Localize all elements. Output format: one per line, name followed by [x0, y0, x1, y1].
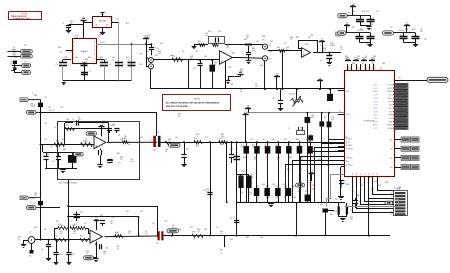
- svg-text:D27: D27: [352, 27, 355, 29]
- svg-text:D10: D10: [126, 57, 129, 59]
- svg-text:6: 6: [94, 50, 95, 52]
- svg-text:R30: R30: [100, 57, 103, 59]
- svg-text:R10: R10: [56, 141, 59, 143]
- svg-text:TPA301: TPA301: [80, 50, 88, 53]
- svg-text:Y1: Y1: [288, 128, 290, 130]
- svg-text:R6: R6: [300, 169, 302, 171]
- svg-text:R40: R40: [168, 139, 171, 141]
- svg-text:C27: C27: [348, 68, 351, 70]
- svg-text:R43: R43: [240, 69, 243, 71]
- svg-text:C51: C51: [250, 139, 253, 141]
- svg-text:R44: R44: [373, 56, 376, 58]
- svg-text:D35: D35: [208, 31, 211, 33]
- svg-text:100: 100: [345, 58, 348, 60]
- svg-text:L51: L51: [32, 106, 35, 108]
- svg-text:R10: R10: [323, 48, 326, 50]
- svg-text:11: 11: [360, 174, 362, 176]
- svg-text:C11: C11: [118, 163, 121, 165]
- svg-text:D58: D58: [230, 239, 233, 241]
- svg-text:L47: L47: [390, 27, 393, 29]
- svg-text:3: 3: [73, 50, 74, 52]
- svg-text:15: 15: [376, 174, 378, 176]
- svg-text:0.1u: 0.1u: [340, 49, 343, 51]
- svg-text:C19: C19: [230, 218, 233, 220]
- svg-text:R40: R40: [296, 37, 299, 39]
- svg-text:C13: C13: [331, 117, 334, 119]
- svg-text:13: 13: [368, 174, 370, 176]
- svg-text:S3: S3: [335, 150, 337, 152]
- svg-text:D35: D35: [342, 35, 345, 37]
- svg-text:R38: R38: [262, 36, 265, 38]
- svg-text:DOUT: DOUT: [346, 114, 351, 116]
- svg-text:R31: R31: [277, 157, 280, 159]
- svg-text:C39: C39: [262, 139, 265, 141]
- svg-text:R14: R14: [293, 186, 296, 188]
- svg-text:C43: C43: [287, 145, 290, 147]
- svg-text:P5: P5: [391, 208, 393, 210]
- svg-text:10K: 10K: [178, 116, 181, 118]
- svg-text:-: -: [91, 231, 92, 235]
- svg-text:104: 104: [13, 55, 16, 57]
- svg-text:R31: R31: [80, 236, 83, 238]
- svg-text:220: 220: [196, 146, 199, 148]
- svg-text:C22: C22: [350, 210, 353, 212]
- svg-text:R63: R63: [330, 214, 333, 216]
- svg-text:R8: R8: [293, 103, 295, 105]
- svg-text:VCM: VCM: [244, 112, 248, 114]
- svg-text:R48: R48: [346, 184, 349, 186]
- svg-text:BCK0: BCK0: [374, 105, 378, 107]
- svg-text:220: 220: [110, 223, 113, 225]
- svg-text:R16: R16: [241, 145, 244, 147]
- svg-text:P6: P6: [391, 211, 393, 213]
- svg-text:R57: R57: [252, 145, 255, 147]
- svg-text:220: 220: [287, 147, 290, 149]
- svg-text:C8: C8: [365, 56, 367, 58]
- svg-text:4.7u: 4.7u: [66, 121, 69, 123]
- svg-text:+: +: [95, 144, 97, 148]
- svg-text:C31: C31: [59, 254, 62, 256]
- svg-text:100: 100: [373, 58, 376, 60]
- svg-text:C2: C2: [85, 139, 87, 141]
- svg-text:VCC1: VCC1: [374, 128, 378, 130]
- svg-text:C30: C30: [284, 186, 287, 188]
- svg-text:C47: C47: [155, 55, 158, 57]
- svg-text:R46: R46: [90, 132, 93, 134]
- svg-text:C15: C15: [153, 149, 156, 151]
- svg-text:R36: R36: [300, 127, 303, 129]
- svg-text:10u: 10u: [75, 37, 78, 39]
- svg-text:7: 7: [94, 46, 95, 48]
- svg-text:C61: C61: [140, 137, 143, 139]
- svg-text:C26: C26: [206, 189, 209, 191]
- svg-text:C2: C2: [266, 157, 268, 159]
- svg-text:104: 104: [240, 179, 243, 181]
- svg-text:220: 220: [420, 31, 423, 33]
- svg-text:R13: R13: [350, 217, 353, 219]
- svg-text:C56: C56: [220, 231, 223, 233]
- svg-text:R31: R31: [371, 189, 374, 191]
- svg-text:C59: C59: [275, 197, 278, 199]
- svg-text:104: 104: [300, 129, 303, 131]
- svg-text:C54: C54: [372, 68, 375, 70]
- svg-text:0.1u: 0.1u: [205, 35, 208, 37]
- svg-text:C36: C36: [105, 248, 108, 250]
- svg-text:L82: L82: [112, 217, 115, 219]
- svg-text:C6: C6: [112, 60, 114, 62]
- svg-text:C25: C25: [275, 186, 278, 188]
- svg-text:100: 100: [60, 233, 63, 235]
- svg-text:C85: C85: [360, 185, 363, 187]
- svg-text:R1: R1: [118, 135, 120, 137]
- svg-text:-: -: [95, 137, 96, 141]
- svg-text:D88: D88: [382, 63, 385, 65]
- svg-text:R33: R33: [63, 149, 66, 151]
- svg-text:L30: L30: [424, 39, 427, 41]
- svg-text:S2: S2: [335, 146, 337, 148]
- svg-text:L14: L14: [297, 191, 300, 193]
- svg-text:DOUT1: DOUT1: [373, 101, 378, 103]
- svg-text:D63: D63: [352, 63, 355, 65]
- svg-text:100: 100: [193, 239, 196, 241]
- svg-text:C37: C37: [246, 35, 249, 37]
- svg-text:4.7u: 4.7u: [72, 227, 75, 229]
- svg-text:D98: D98: [306, 139, 309, 141]
- svg-text:100: 100: [124, 138, 127, 140]
- svg-text:D52: D52: [24, 45, 27, 47]
- svg-text:C50: C50: [86, 251, 89, 253]
- svg-text:R6: R6: [117, 246, 119, 248]
- svg-text:L55: L55: [164, 221, 167, 223]
- svg-text:C10: C10: [75, 35, 78, 37]
- svg-text:C40: C40: [50, 146, 53, 148]
- svg-text:PGM: PGM: [31, 198, 35, 200]
- svg-text:R20: R20: [194, 138, 197, 140]
- svg-text:AS1360: AS1360: [99, 20, 107, 23]
- svg-text:C71: C71: [284, 43, 287, 45]
- svg-text:P2: P2: [391, 199, 393, 201]
- svg-text:VINL: VINL: [389, 118, 393, 120]
- svg-text:220: 220: [85, 141, 88, 143]
- svg-text:C52: C52: [130, 159, 133, 161]
- svg-text:L25: L25: [152, 223, 155, 225]
- svg-text:R87: R87: [232, 53, 235, 55]
- svg-text:R10: R10: [34, 95, 37, 97]
- svg-text:C38: C38: [320, 45, 323, 47]
- svg-text:ITR08 CA-05 CN: ITR08 CA-05 CN: [11, 15, 27, 18]
- svg-text:C55: C55: [357, 56, 360, 58]
- svg-text:TIP: TIP: [269, 45, 271, 47]
- svg-text:L93: L93: [312, 149, 315, 151]
- svg-text:C42: C42: [252, 50, 255, 52]
- svg-text:+: +: [91, 239, 93, 243]
- svg-text:R51: R51: [70, 21, 73, 23]
- svg-text:2: 2: [73, 46, 74, 48]
- svg-text:C36: C36: [398, 187, 401, 189]
- svg-text:C2: C2: [145, 231, 147, 233]
- svg-text:4: 4: [73, 54, 74, 56]
- svg-text:R11: R11: [282, 184, 285, 186]
- svg-text:10u: 10u: [13, 50, 16, 52]
- svg-text:C54 10u: C54 10u: [398, 30, 404, 32]
- svg-text:220: 220: [277, 159, 280, 161]
- svg-text:L80: L80: [170, 55, 173, 57]
- svg-text:C6: C6: [251, 174, 253, 176]
- svg-text:L14: L14: [84, 223, 87, 225]
- svg-text:V+: V+: [95, 218, 97, 220]
- svg-text:C29: C29: [72, 225, 75, 227]
- svg-text:C7: C7: [72, 119, 74, 121]
- svg-text:P22: P22: [390, 158, 393, 160]
- svg-text:VOUTL: VOUTL: [373, 85, 378, 87]
- svg-text:C36: C36: [66, 119, 69, 121]
- svg-text:VINL0: VINL0: [374, 118, 378, 120]
- svg-text:LRCK0: LRCK0: [373, 108, 378, 110]
- svg-text:R6: R6: [284, 197, 286, 199]
- svg-text:AND NOT POPULATED: AND NOT POPULATED: [166, 105, 188, 108]
- svg-text:D88: D88: [58, 47, 61, 49]
- svg-text:L56: L56: [140, 211, 143, 213]
- svg-text:C7: C7: [128, 60, 130, 62]
- svg-text:R60: R60: [158, 51, 161, 53]
- svg-text:C8: C8: [13, 48, 15, 50]
- svg-text:C37: C37: [13, 53, 16, 55]
- svg-text:P20: P20: [390, 140, 393, 142]
- svg-text:104: 104: [284, 188, 287, 190]
- svg-text:D58: D58: [305, 191, 308, 193]
- svg-text:L49: L49: [128, 144, 131, 146]
- svg-text:C16: C16: [110, 17, 113, 19]
- svg-text:4: 4: [94, 58, 95, 60]
- svg-text:C34: C34: [311, 115, 314, 117]
- svg-text:0.1u: 0.1u: [357, 58, 360, 60]
- svg-text:FB1: FB1: [348, 13, 351, 15]
- svg-text:C19: C19: [376, 11, 379, 13]
- svg-text:NOTE: NOTE: [22, 13, 28, 15]
- svg-text:D71: D71: [190, 227, 193, 229]
- svg-text:-: -: [221, 52, 222, 56]
- svg-text:+: +: [221, 60, 223, 64]
- svg-text:C89: C89: [218, 31, 221, 33]
- svg-text:C13: C13: [256, 197, 259, 199]
- svg-text:DOUT: DOUT: [388, 101, 393, 103]
- svg-text:R50: R50: [335, 211, 338, 213]
- svg-text:L15: L15: [414, 35, 417, 37]
- svg-text:R78: R78: [400, 35, 403, 37]
- svg-text:C1: C1: [62, 23, 64, 25]
- svg-text:R13: R13: [362, 11, 365, 13]
- svg-text:D60: D60: [270, 41, 273, 43]
- svg-text:C5: C5: [172, 225, 174, 227]
- svg-text:D20: D20: [318, 159, 321, 161]
- svg-text:L1: L1: [345, 221, 347, 223]
- svg-text:C16: C16: [204, 56, 207, 58]
- svg-text:C95: C95: [60, 107, 63, 109]
- svg-text:VBUS: VBUS: [362, 58, 368, 60]
- svg-text:100: 100: [364, 70, 367, 72]
- svg-text:R41: R41: [198, 41, 201, 43]
- svg-text:100: 100: [190, 58, 193, 60]
- svg-text:D50: D50: [34, 227, 37, 229]
- svg-text:C22: C22: [275, 145, 278, 147]
- svg-text:L1: L1: [32, 93, 34, 95]
- svg-text:R83: R83: [246, 237, 249, 239]
- svg-text:DP_0: DP_0: [398, 78, 402, 80]
- svg-text:L49: L49: [24, 61, 27, 63]
- svg-text:L93: L93: [326, 165, 329, 167]
- svg-text:R48: R48: [46, 154, 49, 156]
- svg-text:S1: S1: [335, 143, 337, 145]
- svg-text:R52: R52: [230, 149, 233, 151]
- svg-text:220: 220: [255, 86, 258, 88]
- svg-text:L94: L94: [24, 51, 27, 53]
- svg-text:C85: C85: [100, 215, 103, 217]
- svg-text:C35: C35: [156, 243, 159, 245]
- svg-text:R30: R30: [55, 236, 58, 238]
- svg-text:C47: C47: [44, 229, 47, 231]
- svg-text:0.1u: 0.1u: [206, 191, 209, 193]
- svg-text:R93: R93: [204, 229, 207, 231]
- svg-text:C23: C23: [310, 35, 313, 37]
- svg-text:P7: P7: [391, 214, 393, 216]
- svg-text:14: 14: [372, 174, 374, 176]
- svg-text:R30: R30: [240, 177, 243, 179]
- svg-text:R12: R12: [66, 125, 69, 127]
- svg-text:L65: L65: [175, 137, 178, 139]
- svg-text:C38: C38: [378, 185, 381, 187]
- svg-text:D9: D9: [352, 191, 354, 193]
- svg-text:L32: L32: [44, 139, 47, 141]
- svg-text:0.1u: 0.1u: [264, 147, 267, 149]
- svg-text:C10: C10: [286, 47, 289, 49]
- svg-text:SCHEM ATIC TAB: SCHEM ATIC TAB: [13, 18, 30, 21]
- svg-text:ALL RESISTOR/CAPACITOR VALUES: ALL RESISTOR/CAPACITOR VALUES IN OHMS/FA…: [166, 102, 220, 105]
- svg-text:100: 100: [10, 64, 13, 66]
- svg-text:100: 100: [350, 219, 353, 221]
- svg-text:1: 1: [73, 42, 74, 44]
- svg-text:4.7u: 4.7u: [241, 147, 244, 149]
- svg-text:C27: C27: [110, 221, 113, 223]
- svg-text:0.1u: 0.1u: [46, 156, 49, 158]
- svg-text:C24: C24: [128, 231, 131, 233]
- svg-text:C32: C32: [72, 254, 75, 256]
- svg-text:R1: R1: [372, 63, 374, 65]
- svg-text:R20: R20: [156, 132, 159, 134]
- svg-text:R53: R53: [252, 48, 255, 50]
- svg-text:C48: C48: [226, 45, 229, 47]
- svg-text:R30: R30: [196, 134, 199, 136]
- svg-text:MIC_N: MIC_N: [49, 110, 55, 112]
- svg-text:C12: C12: [364, 68, 367, 70]
- svg-text:R20: R20: [221, 134, 224, 136]
- svg-text:R32: R32: [126, 211, 129, 213]
- svg-text:C5: C5: [89, 71, 91, 73]
- svg-text:C81: C81: [320, 204, 323, 206]
- svg-text:C61: C61: [308, 37, 311, 39]
- svg-text:5: 5: [94, 54, 95, 56]
- svg-text:10u: 10u: [286, 49, 289, 51]
- svg-text:D4: D4: [362, 63, 364, 65]
- svg-text:C5: C5: [264, 145, 266, 147]
- svg-text:VREF: VREF: [389, 115, 393, 117]
- svg-text:R82: R82: [242, 171, 245, 173]
- svg-text:R43: R43: [146, 51, 149, 53]
- svg-text:R54: R54: [14, 57, 17, 59]
- svg-text:R3: R3: [78, 117, 80, 119]
- svg-text:C96: C96: [374, 181, 377, 183]
- svg-text:L97: L97: [44, 97, 47, 99]
- svg-text:C47: C47: [256, 186, 259, 188]
- svg-text:C2: C2: [342, 161, 344, 163]
- svg-text:L99: L99: [100, 33, 103, 35]
- svg-text:L60: L60: [256, 41, 259, 43]
- svg-text:R3: R3: [240, 89, 242, 91]
- svg-text:SCKI: SCKI: [389, 111, 393, 113]
- svg-text:C4: C4: [109, 64, 111, 66]
- svg-text:10u: 10u: [98, 37, 101, 39]
- svg-text:R36: R36: [192, 232, 195, 234]
- svg-text:V3: V3: [310, 171, 312, 173]
- svg-text:M1: M1: [29, 256, 31, 258]
- svg-text:R31: R31: [62, 139, 65, 141]
- svg-text:NOTE: NOTE: [194, 99, 200, 101]
- svg-text:D10: D10: [332, 45, 335, 47]
- svg-text:100: 100: [78, 119, 81, 121]
- svg-text:C79: C79: [116, 19, 119, 21]
- svg-text:R26: R26: [345, 56, 348, 58]
- svg-text:C25: C25: [293, 197, 296, 199]
- svg-text:VR2 472: VR2 472: [289, 94, 295, 96]
- svg-text:L33: L33: [44, 123, 47, 125]
- svg-text:VCC2: VCC2: [374, 95, 378, 97]
- svg-text:VREF0: VREF0: [373, 115, 378, 117]
- svg-text:D64: D64: [112, 57, 115, 59]
- svg-text:C1: C1: [255, 84, 257, 86]
- svg-text:8: 8: [94, 42, 95, 44]
- svg-text:R14: R14: [178, 114, 181, 116]
- svg-text:OUT: OUT: [105, 25, 108, 27]
- svg-text:104: 104: [331, 119, 334, 121]
- svg-text:4.7u: 4.7u: [145, 233, 148, 235]
- svg-text:L7: L7: [70, 221, 72, 223]
- svg-text:0.1u: 0.1u: [240, 71, 243, 73]
- svg-text:S0: S0: [335, 139, 337, 141]
- svg-text:C41: C41: [249, 192, 252, 194]
- svg-text:SSPND//: SSPND//: [346, 158, 353, 160]
- svg-text:C35: C35: [214, 62, 217, 64]
- svg-text:R7: R7: [324, 117, 326, 119]
- svg-text:C40: C40: [193, 68, 196, 70]
- svg-text:D33: D33: [64, 57, 67, 59]
- svg-text:C98: C98: [178, 229, 181, 231]
- svg-text:12: 12: [364, 174, 366, 176]
- svg-text:R5: R5: [60, 231, 62, 233]
- svg-text:220: 220: [380, 70, 383, 72]
- svg-text:C23: C23: [298, 145, 301, 147]
- svg-text:C15: C15: [196, 144, 199, 146]
- svg-text:L16: L16: [12, 67, 15, 69]
- svg-text:C34: C34: [75, 57, 78, 59]
- svg-text:D94: D94: [287, 169, 290, 171]
- svg-text:47u: 47u: [320, 60, 323, 62]
- svg-text:RV1: RV1: [220, 250, 223, 252]
- svg-text:100: 100: [197, 231, 200, 233]
- svg-text:R68: R68: [262, 184, 265, 186]
- svg-text:0.1u: 0.1u: [249, 194, 252, 196]
- svg-text:R94: R94: [88, 57, 91, 59]
- svg-text:VOUTR: VOUTR: [373, 88, 379, 90]
- svg-text:100: 100: [110, 19, 113, 21]
